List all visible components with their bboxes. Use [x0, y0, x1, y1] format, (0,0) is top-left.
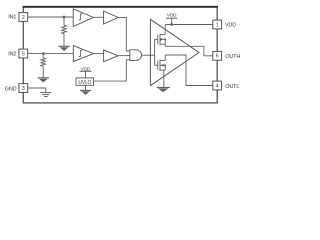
buffer U2A (IN2 schmitt buffer) [73, 46, 93, 62]
driver stage triangle [150, 19, 199, 85]
svg-text:GND: GND [5, 87, 17, 93]
node VDD junction [170, 23, 173, 26]
UVLO block [76, 78, 94, 85]
svg-text:OUTL: OUTL [225, 84, 239, 90]
gate bus wire inside driver [154, 39, 156, 65]
ground (IN1 pulldown) [58, 46, 69, 51]
wire U1B to AND gate top input [118, 17, 130, 51]
wire top border accent [23, 6, 218, 8]
wire UVLO to ground [85, 85, 87, 90]
pin 3 box [19, 84, 28, 93]
ground (GND pin, earth style) [40, 93, 51, 97]
pin 5 box [19, 49, 28, 58]
svg-text:5: 5 [22, 51, 25, 57]
wire junction down to resistor R1 [63, 17, 65, 25]
svg-text:VDD: VDD [81, 66, 91, 72]
hysteresis symbol U2A [79, 50, 83, 56]
wire Q1 source to OUTH [164, 44, 166, 46]
svg-text:VDD: VDD [167, 13, 177, 19]
wire OUTH from Q1 to pin 6 [165, 46, 213, 56]
svg-text:1: 1 [216, 22, 219, 28]
pin 1 box [213, 20, 222, 29]
wire UVLO output to AND gate bottom input [94, 60, 130, 81]
transistor Q1 (high-side P-MOSFET) [155, 25, 167, 47]
svg-text:3: 3 [22, 86, 25, 92]
node IN1 junction [63, 16, 66, 19]
wire U2B to AND gate [118, 55, 130, 57]
VDD rail symbol (UVLO) [80, 70, 92, 72]
svg-text:IN2: IN2 [8, 52, 16, 58]
svg-text:2: 2 [22, 15, 25, 21]
buffer U1A (IN1 schmitt buffer) [73, 9, 93, 27]
wire Q2 source to ground [163, 70, 165, 87]
svg-text:VDD: VDD [225, 23, 236, 29]
resistor R2 (IN2 pulldown) [41, 58, 46, 66]
transistor Q2 (low-side N-MOSFET) [155, 55, 167, 88]
buffer U2B [104, 50, 119, 62]
wire Q1 drain to VDD rail [164, 25, 166, 35]
hysteresis symbol U1A [79, 14, 83, 20]
ground (driver stage) [157, 88, 170, 93]
ground (UVLO) [80, 90, 91, 95]
wire Q2 drain to OUTL [164, 55, 166, 61]
svg-text:6: 6 [216, 54, 219, 60]
wire IN1 pin to buffer [28, 16, 73, 18]
wire VDD rail to pin 1 [165, 24, 213, 26]
buffer U1B [104, 11, 119, 24]
wire R1 to ground [63, 34, 65, 47]
wire VDD to UVLO [85, 71, 87, 78]
svg-text:4: 4 [216, 83, 219, 89]
wire U1A to U1B [94, 16, 104, 18]
ground (IN2 pulldown) [38, 78, 49, 83]
svg-text:UVLO: UVLO [78, 80, 91, 86]
wire OUTL from Q2 to pin 4 [165, 55, 213, 86]
wire R2 to ground [42, 66, 44, 78]
pin 4 box [213, 81, 222, 90]
AND gate U3 [130, 50, 142, 61]
VDD rail symbol (driver) [166, 17, 177, 19]
wire VDD symbol down [171, 18, 173, 24]
resistor R1 (IN1 pulldown) [62, 25, 67, 33]
wire IN2 pin to buffer [28, 53, 74, 55]
wire U2A to U2B [94, 53, 104, 55]
pin 2 box [19, 13, 28, 22]
svg-text:OUTH: OUTH [225, 54, 240, 60]
wire AND output to driver [142, 54, 155, 56]
pin 6 box [213, 51, 222, 60]
svg-text:IN1: IN1 [8, 15, 16, 21]
wire junction down to resistor R2 [42, 54, 44, 58]
IC boundary box [23, 7, 217, 103]
node IN2 junction [42, 52, 45, 55]
wire GND pin to ground [28, 88, 46, 93]
